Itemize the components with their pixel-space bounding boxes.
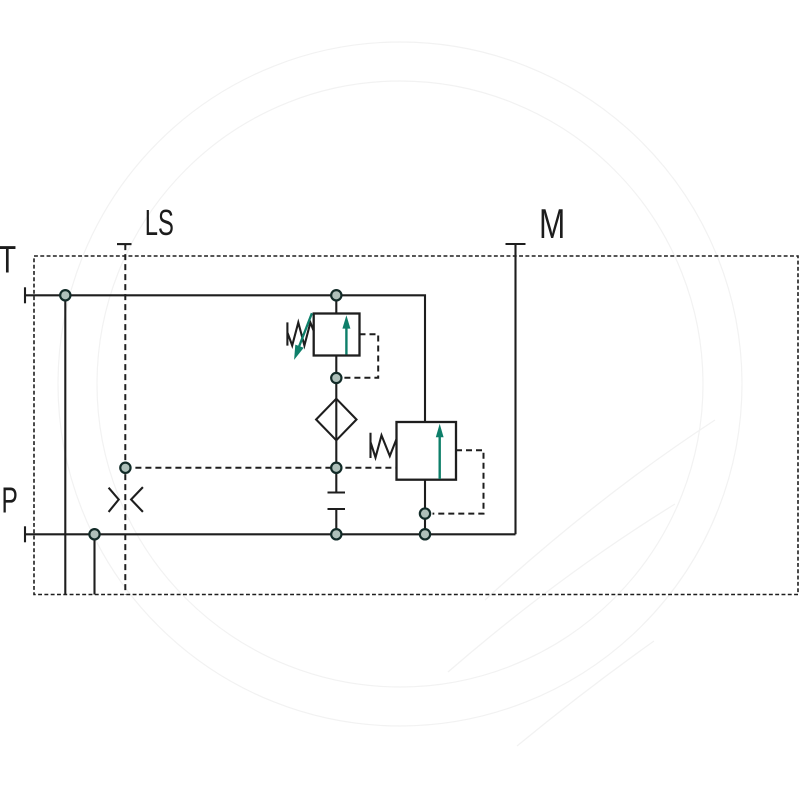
wire: stub from LS junction down to plug [335, 468, 337, 493]
wire: P rail [25, 533, 516, 535]
wire: V1 outlet stub [335, 356, 337, 373]
junction node on T rail (V1 branch) [331, 290, 341, 300]
junction node on LS line (orifice top) [120, 463, 130, 473]
V1 spring [287, 322, 313, 345]
V1 adjustment arrow (teal diagonal) [294, 313, 312, 360]
junction node on LS pilot line (filter branch) [331, 463, 341, 473]
V2 pilot line (dashed) [433, 450, 484, 513]
blocked connection upper bar [328, 491, 346, 493]
V2 spring [371, 433, 397, 458]
wire: stub from plug down to P rail [335, 509, 337, 534]
port LS terminal cap [117, 243, 132, 245]
filter F1 (diamond) [316, 399, 356, 441]
LS pilot line (dashed, to valve V2) [125, 467, 396, 469]
LS dashed port line [124, 244, 126, 594]
junction node on P rail (pump drop) [89, 529, 99, 539]
wire: valve V1 inlet stub [335, 295, 337, 313]
orifice in LS line (right chevron) [131, 487, 143, 512]
wire: V2 outlet to P rail [424, 480, 426, 535]
wire: filter branch (through diamond) [335, 378, 337, 468]
relief valve V2 body [397, 422, 457, 480]
orifice in LS line (left chevron) [109, 488, 119, 512]
svg-text:M: M [539, 200, 565, 248]
port T terminal cap [24, 287, 26, 303]
V2 flow arrow (teal) [436, 424, 444, 479]
wire: pump drop at x=94.5 [93, 534, 95, 594]
svg-text:LS: LS [145, 203, 174, 243]
faint circular watermark (decorative, unlabeled) [58, 42, 742, 746]
V1 flow arrow (teal) [342, 315, 350, 354]
svg-text:P: P [2, 480, 18, 521]
svg-text:T: T [0, 239, 16, 282]
junction node on P rail (plug branch) [331, 529, 341, 539]
wire: T rail with corner drop to valve V2 [25, 295, 425, 422]
junction node on T rail (tank drop) [60, 290, 70, 300]
valve block boundary (dashed enclosure) [34, 256, 798, 595]
wire: M rail [514, 244, 516, 534]
junction node on P rail (V2 outlet) [420, 529, 430, 539]
V1 pilot line (dashed) [344, 334, 379, 378]
junction node below V2 (pilot tie-in) [420, 508, 430, 518]
port P terminal cap [24, 526, 26, 542]
junction node below V1 (pilot tie-in) [331, 373, 341, 383]
blocked connection lower bar [328, 508, 346, 510]
relief valve V1 body [314, 314, 360, 356]
port M terminal cap [506, 243, 526, 245]
wire: tank drop at x=65 [64, 295, 66, 594]
